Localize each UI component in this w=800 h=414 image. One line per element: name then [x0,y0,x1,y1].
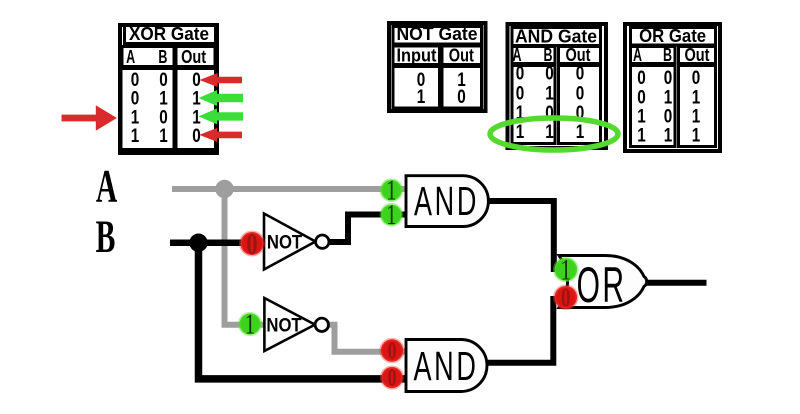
wire: NOT1 output to AND1 input (black) [329,215,406,243]
svg-text:0: 0 [131,89,140,110]
state 0 at AND U4 input B (red) [381,364,402,392]
svg-text:1: 1 [245,308,255,340]
svg-text:1: 1 [545,84,554,105]
AND Gate truth table [508,24,607,148]
small red arrow at XOR row 0,0 out [200,73,243,87]
svg-text:OR: OR [577,257,627,313]
small green arrow at XOR row 0,1 out [199,90,243,106]
small green arrow at XOR row 1,0 out [199,108,243,124]
wire: AND1 output down to OR input (black) [488,201,554,272]
svg-text:1: 1 [386,200,396,231]
big red arrow pointing at XOR row 1,0 [62,105,117,130]
svg-text:B: B [544,45,553,65]
svg-text:A: A [96,161,118,212]
small red arrow at XOR row 1,1 out [199,128,242,142]
svg-text:NOT: NOT [267,232,302,253]
state 0 at OR U5 input (red) [555,282,578,312]
svg-text:NOT Gate: NOT Gate [397,24,478,44]
svg-text:XOR Gate: XOR Gate [129,24,209,44]
AND gate U3 [406,176,488,227]
svg-text:AND Gate: AND Gate [515,27,597,47]
NOT gate U2 triangle [264,298,315,351]
svg-text:0: 0 [388,364,397,392]
wire: OR output (black) [644,280,707,286]
wire: A vertical drop to NOT2 (gray) [225,189,267,325]
NOT gate U1 triangle [264,214,316,270]
state 1 at AND U3 input from NOT1 (green) [381,200,402,231]
svg-text:Input: Input [397,46,437,66]
svg-text:A: A [126,47,135,67]
svg-text:B: B [663,45,672,65]
svg-text:1: 1 [692,87,701,108]
AND gate U4 [406,340,487,392]
svg-text:1: 1 [637,125,646,146]
svg-text:1: 1 [417,87,426,108]
svg-text:A: A [633,45,642,65]
svg-text:0: 0 [664,68,673,89]
svg-text:0: 0 [192,126,201,147]
svg-text:1: 1 [576,122,585,143]
svg-text:1: 1 [192,89,201,110]
svg-text:0: 0 [561,282,571,312]
wire: B vertical + bottom run to AND2 (black) [199,243,407,379]
NOT Gate truth table [389,23,486,111]
svg-text:1: 1 [516,122,525,143]
state 1 at AND U3 input A (green) [381,175,402,206]
OR gate U5 [559,256,647,313]
svg-text:OR Gate: OR Gate [639,26,706,46]
svg-text:Out: Out [566,45,591,65]
svg-text:0: 0 [246,226,257,260]
svg-text:0: 0 [516,64,525,85]
wire: B horizontal (black) [170,239,266,246]
svg-text:0: 0 [576,64,585,85]
svg-text:AND: AND [414,180,479,225]
state 1 at NOT U2 input (green) [239,308,260,340]
svg-text:1: 1 [664,125,673,146]
wire: A horizontal (gray) [172,186,406,192]
svg-text:1: 1 [159,89,168,110]
svg-text:Out: Out [449,46,474,66]
NOT gate U1 bubble [316,235,329,248]
svg-text:Out: Out [685,45,710,65]
NOT gate U2 bubble [315,318,328,331]
state 0 at AND U4 input from NOT2 (red) [381,337,403,365]
svg-text:1: 1 [131,126,140,147]
svg-text:1: 1 [545,122,554,143]
OR Gate truth table [625,24,720,151]
svg-text:AND: AND [413,345,478,390]
svg-text:NOT: NOT [266,314,301,335]
svg-text:B: B [96,211,116,262]
svg-text:A: A [513,45,522,65]
XOR Gate truth table [120,24,217,153]
svg-text:1: 1 [692,125,701,146]
svg-text:0: 0 [637,68,646,89]
green highlight ellipse around AND 1,1,1 row [490,118,618,150]
svg-text:0: 0 [545,64,554,85]
svg-text:1: 1 [159,126,168,147]
svg-text:0: 0 [516,84,525,105]
state 0 at NOT U1 input (red) [241,226,264,260]
svg-text:0: 0 [388,337,397,365]
svg-text:0: 0 [457,87,466,108]
svg-text:Out: Out [181,47,206,67]
svg-text:0: 0 [576,84,585,105]
junction dot on B wire (black) [189,234,207,252]
wire: AND2 output up to OR input (black) [488,296,554,363]
svg-text:0: 0 [637,87,646,108]
svg-text:0: 0 [692,68,701,89]
wire: NOT2 output to AND2 input (gray) [328,325,406,352]
junction dot on A wire (gray) [215,180,233,198]
svg-text:1: 1 [664,87,673,108]
state 1 at OR U5 input (green) [555,253,578,286]
svg-text:B: B [158,47,167,67]
